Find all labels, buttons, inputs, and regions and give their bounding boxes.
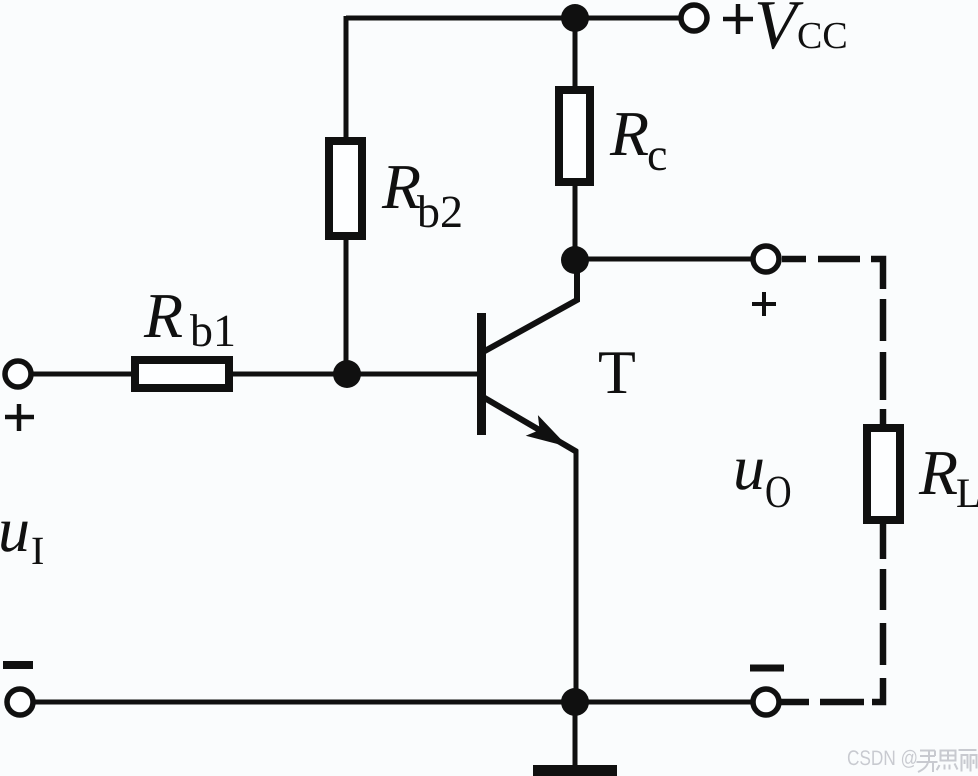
node emitter-bottom junction — [561, 688, 589, 716]
resistor RL — [867, 428, 900, 520]
label uO — [736, 460, 763, 490]
wire input terminal to Rb1 — [32, 372, 131, 377]
label RL — [919, 452, 957, 494]
label Rc — [610, 113, 648, 155]
wire collector rail to output terminal — [575, 257, 753, 262]
wire emitter vertical — [574, 450, 579, 702]
resistor Rc — [559, 90, 590, 182]
terminal input bottom — [7, 689, 33, 715]
label T — [599, 352, 635, 393]
terminal output bottom — [753, 689, 779, 715]
wire Rb2 lower to base node — [344, 240, 349, 374]
label plus input — [5, 404, 34, 431]
wire dashed output top loop — [782, 259, 883, 430]
wire bottom rail — [34, 700, 753, 705]
watermark CJK glyphs — [917, 750, 977, 772]
terminal Vcc — [681, 5, 707, 31]
watermark CSDN — [848, 750, 917, 768]
label Rb2 — [382, 166, 420, 208]
ground — [533, 765, 617, 776]
label uI — [1, 522, 28, 552]
transistor T collector lead — [483, 259, 577, 352]
terminal input — [5, 361, 31, 387]
node top junction — [561, 4, 589, 32]
wire dashed output bottom loop — [781, 522, 883, 702]
resistor Rb1 — [135, 360, 229, 388]
wire ground stem — [573, 700, 578, 767]
node collector junction — [561, 246, 589, 274]
wire Rc lower to collector node — [573, 186, 578, 261]
transistor T base bar — [477, 313, 486, 435]
label +Vcc — [723, 4, 753, 34]
label plus output — [752, 292, 776, 316]
wire Rc upper — [573, 18, 578, 86]
resistor Rb2 — [329, 141, 362, 236]
wire Rb2 upper — [344, 16, 349, 137]
label minus output — [750, 665, 784, 672]
wire top rail — [346, 16, 681, 21]
terminal output top — [753, 246, 779, 272]
transistor T emitter arrow — [526, 415, 568, 447]
wire Rb1 to base — [233, 372, 478, 377]
transistor T emitter lead — [483, 397, 577, 452]
node base junction — [333, 360, 361, 388]
label minus input — [3, 661, 33, 669]
label Rb1 — [144, 295, 182, 337]
